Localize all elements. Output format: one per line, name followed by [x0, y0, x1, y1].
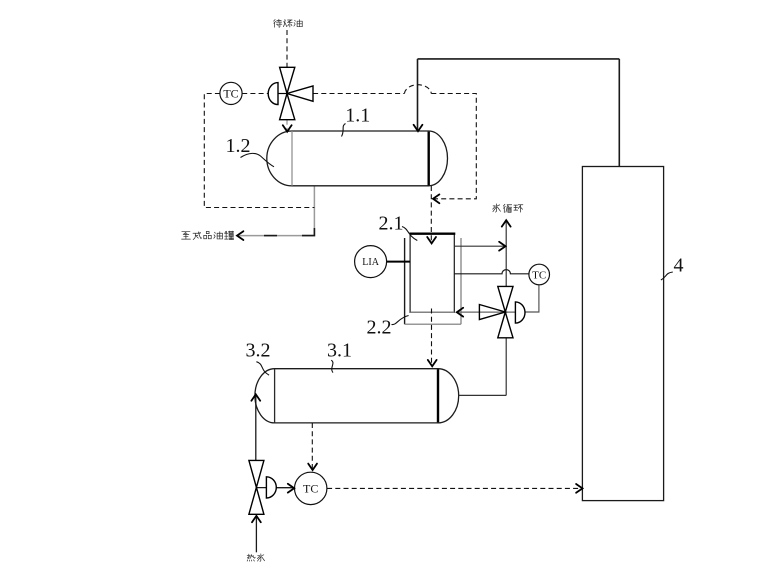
- svg-text:3.2: 3.2: [246, 340, 271, 362]
- svg-text:TC: TC: [532, 269, 546, 281]
- svg-text:2.2: 2.2: [367, 317, 392, 339]
- svg-text:TC: TC: [223, 86, 238, 100]
- svg-text:TC: TC: [303, 482, 318, 496]
- svg-text:4: 4: [674, 254, 684, 276]
- svg-text:1.2: 1.2: [226, 135, 251, 157]
- svg-text:3.1: 3.1: [327, 340, 352, 362]
- svg-text:1.1: 1.1: [345, 105, 370, 127]
- svg-text:2.1: 2.1: [379, 213, 404, 235]
- svg-text:LIA: LIA: [362, 257, 379, 268]
